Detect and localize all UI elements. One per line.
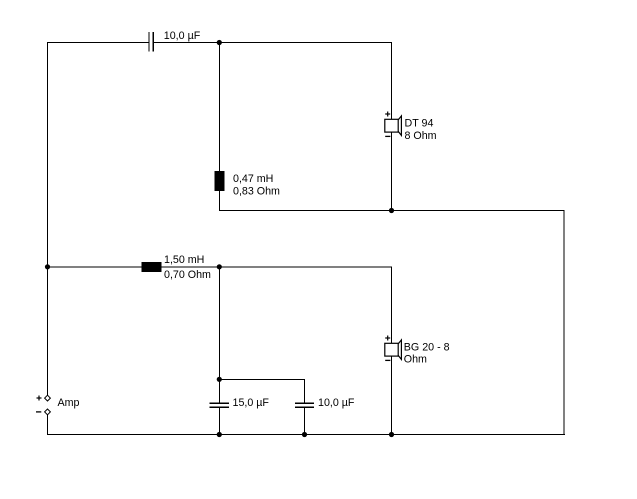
svg-text:BG 20 - 8: BG 20 - 8 [404,341,450,353]
wire vertical from top corner down to DT 94 speaker [391,42,393,120]
label 0,47 mH / 0,83 Ohm [233,173,280,198]
junction node at (219,379) [217,377,222,382]
polarity - mark at amp [36,411,41,413]
svg-text:0,83 Ohm: 0,83 Ohm [233,186,280,198]
junction node on left vertical at y=267 [45,264,50,269]
amp - terminal (diamond) [45,409,51,415]
wire horizontal mid (tweeter return) y=210 [219,210,565,212]
capacitor 10,0 uF (shunt) [295,403,314,407]
wire right vertical x=564 [563,211,565,435]
polarity - mark of DT 94 [385,135,390,137]
wire bottom horizontal y=434 [47,434,565,436]
svg-text:0,47 mH: 0,47 mH [233,173,273,185]
capacitor 15,0 uF (shunt) [210,403,229,407]
svg-text:1,50 mH: 1,50 mH [164,254,204,266]
wire vertical below inductor 0,47 mH [218,190,220,211]
svg-text:0,70 Ohm: 0,70 Ohm [164,269,211,281]
junction node at (304,434) [302,432,307,437]
wire top horizontal right of capacitor [154,42,392,44]
svg-text:DT 94: DT 94 [405,118,434,130]
wire left vertical from top corner down to amp + terminal [47,42,49,395]
polarity - mark of BG 20 [385,359,390,361]
wire horizontal branch y=379 to second capacitor [219,378,304,380]
junction node at (219,434) [217,432,222,437]
speaker DT 94 (box and cone) [385,116,402,135]
wire vertical from top junction down to inductor 0,47 mH [218,43,220,173]
junction node at top wire x=219 [217,40,222,45]
junction node at (391,210) [389,208,394,213]
label DT 94 / 8 Ohm [405,118,437,142]
capacitor 10,0 uF (series, top) [149,32,153,52]
svg-text:Ohm: Ohm [404,354,427,366]
wire from amp - terminal down to bottom wire [47,415,49,436]
wire vertical below capacitor 15,0 uF [218,408,220,435]
inductor 0,47 mH (solid bar) [214,171,224,191]
polarity + mark of BG 20 [385,336,390,341]
wire middle horizontal left of inductor 1,50 mH [47,266,142,268]
svg-text:10,0 µF: 10,0 µF [164,30,201,42]
polarity + mark of DT 94 [385,112,390,117]
junction node at (391,434) [389,432,394,437]
svg-text:15,0 µF: 15,0 µF [233,397,270,409]
label BG 20 - 8 / Ohm [404,341,450,365]
amp + terminal (diamond) [45,395,51,401]
polarity + mark at amp [37,396,42,401]
wire vertical x=304 down to capacitor 10,0 uF [304,379,306,403]
svg-text:8 Ohm: 8 Ohm [405,130,437,142]
wire top horizontal left of capacitor [47,42,149,44]
speaker BG 20 (box and cone) [385,340,402,360]
wire middle horizontal right of inductor to corner [161,266,392,268]
wire vertical x=219 from middle junction down to capacitor 15,0 uF [218,267,220,403]
svg-text:10,0 µF: 10,0 µF [318,397,355,409]
wire vertical below BG 20 to bottom wire [391,356,393,435]
svg-text:Amp: Amp [58,397,80,409]
junction node at (219,267) [217,264,222,269]
wire vertical below capacitor 10,0 uF [304,408,306,435]
wire vertical below DT 94 to junction [391,132,393,211]
inductor 1,50 mH (solid bar) [142,262,162,272]
wire vertical from middle corner down to BG 20 speaker [391,266,393,343]
